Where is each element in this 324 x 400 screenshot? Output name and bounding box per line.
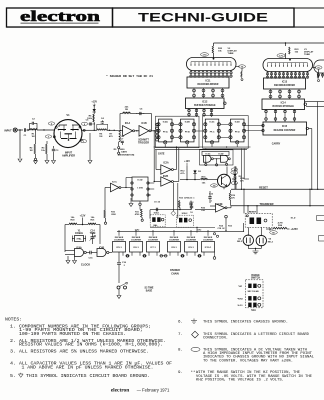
gate IC1C small	[111, 183, 120, 192]
Q2 voltage ovals	[231, 171, 238, 174]
svg-text:8.: 8.	[178, 348, 183, 352]
voltage oval at V3 anode	[277, 54, 285, 58]
svg-text:GATE: GATE	[158, 153, 165, 156]
svg-text:TRIGGER: TRIGGER	[138, 142, 149, 145]
flip-flop IC2A	[159, 119, 173, 142]
svg-text:DECADE COUNTER: DECADE COUNTER	[274, 129, 296, 132]
svg-text:IC10-1: IC10-1	[205, 247, 212, 249]
svg-text:electron: electron	[20, 9, 100, 25]
V1 internal elements	[59, 125, 80, 127]
svg-text:GATE: GATE	[121, 151, 127, 154]
divider link 2	[143, 255, 147, 257]
diode D1	[93, 107, 95, 110]
wire gates to FF row	[173, 169, 176, 171]
svg-text:C16: C16	[122, 262, 127, 264]
svg-text:S1B-1: S1B-1	[154, 213, 161, 215]
svg-text:1kHz: 1kHz	[135, 229, 140, 231]
tube internal cathodes	[191, 61, 231, 63]
resistor R2	[35, 130, 37, 144]
svg-text:**: **	[191, 370, 196, 375]
relay K1 contacts	[250, 218, 255, 225]
divider right-end wires	[214, 252, 216, 257]
svg-text:TUBE: TUBE	[304, 54, 310, 56]
wire into IC1A	[119, 129, 123, 132]
svg-text:DECODER-DRIVER: DECODER-DRIVER	[274, 85, 295, 87]
wire input to attenuator	[17, 129, 23, 131]
wire V1 plate to follower	[82, 129, 97, 131]
wire: input ground leg	[19, 130, 21, 158]
one-shot IC1D box	[132, 177, 148, 201]
tube right pin voltage oval	[313, 67, 317, 69]
resistor R22	[212, 46, 213, 53]
tube internal cathodes	[268, 62, 308, 64]
voltage oval relay	[270, 231, 278, 235]
decoder-driver IC13	[264, 78, 306, 89]
relay to lamps wiring	[247, 246, 249, 249]
svg-text:XTAL: XTAL	[76, 238, 82, 241]
op-amp IC1A	[123, 126, 133, 137]
wires IC1D to gate column	[148, 182, 154, 184]
diode D2	[194, 170, 196, 172]
gate junctions	[205, 163, 207, 165]
svg-text:1M: 1M	[29, 150, 32, 152]
wire V1 cathode leg	[89, 133, 91, 160]
svg-text:R21: R21	[90, 220, 95, 222]
svg-text:9.: 9.	[178, 371, 183, 375]
wire to Q2 base	[180, 179, 200, 181]
divider link 5	[198, 255, 202, 257]
header bar: electron logo box	[7, 8, 113, 27]
ground (S2)	[117, 296, 121, 299]
svg-text:electron: electron	[111, 388, 129, 394]
ground (IC1D)	[129, 204, 133, 207]
gate package outline	[200, 150, 234, 165]
svg-text:*KHZ: *KHZ	[237, 298, 243, 300]
svg-text:2.: 2.	[10, 340, 16, 344]
svg-text:R13: R13	[228, 226, 233, 228]
V1 pin ovals left	[48, 122, 54, 125]
divider chain top rail	[117, 230, 244, 232]
svg-text:C7: C7	[121, 139, 125, 141]
svg-text:NOTES:: NOTES:	[5, 319, 22, 323]
svg-text:10: 10	[190, 212, 193, 214]
capacitor C6 (dashed speedup)	[136, 113, 139, 115]
wire: FF area to reset rail	[241, 149, 243, 190]
ground (V1 cathode)	[88, 161, 92, 164]
wire transfer gate output	[227, 207, 231, 209]
svg-text:1 AND ABOVE ARE IN pF UNLESS M: 1 AND ABOVE ARE IN pF UNLESS MARKED OTHE…	[22, 366, 154, 370]
display tube V4 (cut off at edge)	[314, 60, 324, 73]
svg-text:IC5-1: IC5-1	[116, 247, 122, 249]
range switch wafer row 3	[248, 303, 251, 307]
svg-text:DECODER-DRIVER: DECODER-DRIVER	[198, 84, 219, 86]
svg-text:S1-D: S1-D	[291, 218, 296, 220]
right rail verticals	[309, 189, 311, 206]
svg-text:L1: L1	[122, 136, 125, 138]
svg-text:IC1D: IC1D	[138, 179, 143, 181]
connector fragment right edge 2	[319, 236, 324, 242]
divider link 4	[181, 255, 185, 257]
package outline (counter group 2)	[203, 116, 249, 149]
nand gate IC4A (clock)	[75, 249, 84, 257]
svg-text:3.: 3.	[10, 351, 16, 355]
resistor R24	[266, 228, 273, 230]
resistor R20	[69, 223, 77, 224]
capacitor C15	[90, 251, 91, 255]
svg-text:C15: C15	[88, 258, 93, 260]
flip-flop IC2C	[205, 119, 219, 142]
capacitor C16	[118, 252, 120, 262]
wire: counter output bus	[154, 146, 251, 148]
svg-text:SEC 100 4B: SEC 100 4B	[247, 290, 259, 293]
neon lamp V4	[243, 235, 253, 245]
wires IC12 buffer to counters	[188, 108, 190, 117]
wire attenuator to V1 grid	[37, 129, 55, 131]
resistor R8 feedback	[119, 114, 121, 130]
board connection circles	[156, 123, 159, 126]
svg-text:IC14: IC14	[281, 102, 287, 105]
svg-text:C4: C4	[101, 117, 105, 120]
range switch wafer row 1	[248, 284, 251, 288]
capacitor C3	[53, 146, 55, 149]
resistor R4	[97, 129, 107, 131]
tube pin circles	[190, 71, 192, 78]
nand gate IC3D	[221, 155, 229, 162]
svg-text:R9: R9	[114, 149, 118, 151]
svg-text:S1B-2: S1B-2	[182, 213, 189, 215]
nand gate IC4B (clock)	[97, 249, 106, 257]
svg-text:IC13: IC13	[282, 81, 288, 84]
wires IC14 buffer to IC15	[265, 109, 267, 122]
svg-text:*HZ: *HZ	[238, 286, 242, 288]
nand gate IC3C	[204, 155, 212, 162]
wire IC1A to IC1B	[135, 130, 139, 132]
svg-text:6.: 6.	[178, 321, 183, 325]
svg-text:IC1A: IC1A	[125, 122, 131, 125]
svg-text:10Hz: 10Hz	[197, 229, 202, 231]
wire IC15 to reset rail	[309, 128, 312, 130]
svg-text:BUFFER-STORAGE: BUFFER-STORAGE	[272, 105, 294, 108]
svg-text:CHAIN: CHAIN	[171, 273, 179, 276]
svg-text:BASE: BASE	[146, 289, 153, 292]
flip-flop IC2B	[181, 119, 195, 142]
svg-text:10k: 10k	[218, 51, 222, 53]
svg-text:THIS SYMBOL INDICATES CIRCUIT: THIS SYMBOL INDICATES CIRCUIT BOARD GROU…	[26, 375, 150, 379]
svg-text:+12V: +12V	[184, 160, 190, 163]
svg-text:C2: C2	[32, 119, 36, 121]
svg-text:4.: 4.	[10, 363, 16, 367]
svg-text:10k: 10k	[202, 183, 206, 185]
svg-text:FF-B: FF-B	[185, 132, 190, 134]
svg-text:C1: C1	[24, 135, 28, 137]
RESET rail	[231, 188, 324, 190]
svg-text:Y1: Y1	[78, 231, 82, 233]
svg-text:V5: V5	[268, 239, 271, 241]
svg-text:IC1C: IC1C	[112, 182, 117, 184]
header bar: right empty box	[294, 8, 324, 27]
wire gate line vertical	[153, 131, 155, 182]
svg-text:IC15: IC15	[282, 125, 288, 128]
wire FF4 to IC15	[244, 125, 263, 127]
divider link 3	[160, 255, 168, 257]
svg-text:470: 470	[109, 135, 113, 138]
buffer-storage IC12	[186, 98, 225, 109]
wire: +175V top rail to display tubes	[214, 42, 324, 44]
svg-text:IC11: IC11	[206, 80, 212, 83]
svg-text:IC6-1: IC6-1	[133, 247, 139, 249]
svg-text:R20: R20	[70, 220, 75, 222]
svg-text:CLOCK: CLOCK	[81, 263, 90, 267]
svg-text:NE-2: NE-2	[268, 241, 274, 243]
svg-text:22k: 22k	[125, 107, 129, 109]
svg-text:4.7M: 4.7M	[278, 221, 283, 224]
switch S2 time base	[117, 286, 120, 289]
svg-text:THIS SYMBOL INDICATES CHASSIS: THIS SYMBOL INDICATES CHASSIS GROUND.	[203, 321, 288, 325]
svg-text:TRANSFER: TRANSFER	[259, 202, 273, 206]
svg-text:IC9-1: IC9-1	[188, 247, 194, 249]
svg-text:1M: 1M	[31, 136, 34, 138]
svg-text:FF-A: FF-A	[163, 131, 168, 134]
svg-text:C9 .05: C9 .05	[154, 201, 161, 203]
Q2 collector wire	[226, 167, 228, 176]
tube V1 envelope	[54, 120, 82, 148]
svg-text:* SOLDER ON SET TAB OF #1: * SOLDER ON SET TAB OF #1	[106, 75, 154, 78]
chassis ground (lamps)	[253, 251, 259, 254]
neon lamp V5	[256, 235, 266, 245]
ground (R3)	[45, 161, 49, 164]
header bar: TECHNI-GUIDE box	[113, 8, 295, 27]
decoder to buffer wires	[270, 89, 272, 99]
svg-text:IC2A: IC2A	[163, 120, 168, 123]
svg-text:5600: 5600	[120, 149, 126, 151]
svg-text:4700: 4700	[135, 213, 140, 216]
svg-text:IC2A: IC2A	[163, 162, 169, 165]
cal bus wire	[150, 226, 215, 228]
resistor R3	[46, 141, 48, 144]
ground (R2)	[34, 158, 36, 160]
tube right pin voltage oval	[236, 66, 240, 68]
inductor L1 / R9 leg	[115, 129, 119, 131]
diode D3 column	[234, 166, 236, 189]
svg-text:D2: D2	[198, 171, 202, 173]
svg-text:.1: .1	[210, 201, 213, 203]
clock frame wires	[65, 224, 69, 226]
svg-text:IC2B: IC2B	[185, 121, 190, 123]
svg-text:100kHz: 100kHz	[75, 233, 84, 235]
svg-text:(DESIGNATION): (DESIGNATION)	[118, 154, 135, 157]
svg-text:FF-C: FF-C	[210, 132, 215, 134]
svg-text:+125V: +125V	[291, 228, 299, 231]
svg-text:CARRY: CARRY	[272, 143, 281, 146]
svg-text:R11: R11	[135, 212, 140, 214]
divider link 1	[126, 255, 130, 257]
svg-text:R15: R15	[201, 208, 206, 210]
capacitor C5	[89, 123, 93, 125]
connector fragment right edge 1	[317, 216, 324, 221]
svg-text:RESET: RESET	[249, 212, 257, 214]
svg-text:SWITCH: SWITCH	[251, 278, 260, 280]
buffer-storage IC14	[262, 99, 305, 110]
svg-text:RESET: RESET	[259, 185, 268, 189]
TRANSFER rail	[231, 205, 324, 207]
package outline (counter group 1)	[156, 116, 200, 148]
svg-text:R14: R14	[219, 225, 224, 228]
svg-text:IC2C: IC2C	[210, 121, 215, 123]
svg-text:C18 .02: C18 .02	[217, 228, 225, 230]
decoder to buffer wires	[193, 88, 195, 98]
range switch wafer row 2	[248, 296, 251, 300]
svg-text:+12V: +12V	[91, 101, 97, 104]
ground (input)	[18, 159, 22, 162]
capacitor C2 (parallel trim)	[29, 123, 31, 130]
svg-text:2200: 2200	[111, 214, 116, 216]
svg-text:FF-D: FF-D	[235, 132, 240, 134]
svg-text:NE-2: NE-2	[237, 241, 243, 243]
svg-text:C3: C3	[56, 150, 60, 152]
svg-text:S2 TIME: S2 TIME	[145, 288, 154, 290]
svg-text:7.: 7.	[178, 333, 183, 337]
svg-text:V4: V4	[238, 237, 241, 240]
op-amp IC1B	[139, 126, 149, 137]
clock gate grounds	[67, 256, 69, 260]
wire top-right vertical	[317, 102, 319, 190]
gate block label box	[202, 151, 229, 155]
svg-text:TUBE: TUBE	[228, 53, 234, 55]
svg-text:C10 .1: C10 .1	[189, 197, 196, 199]
flip-flop IC2D	[231, 119, 245, 142]
svg-text:TO THE COUNTER. VOLTAGES MAY V: TO THE COUNTER. VOLTAGES MAY VARY ±20%.	[203, 359, 293, 363]
svg-text:IC7-1: IC7-1	[150, 247, 156, 249]
display tube V2 envelope	[187, 58, 237, 71]
resistor R7 label	[107, 129, 115, 131]
display tube V3 envelope	[263, 59, 313, 72]
wire gate column to divider	[172, 183, 174, 211]
resistor R5	[93, 114, 94, 122]
svg-text:R13: R13	[179, 197, 184, 199]
svg-text:RANGE: RANGE	[251, 274, 260, 277]
tube pin circles	[267, 72, 269, 79]
wire transfer left end	[150, 209, 191, 211]
svg-text:IC4A: IC4A	[76, 247, 82, 250]
decoder-driver IC11	[187, 77, 229, 88]
svg-text:.1: .1	[123, 265, 126, 267]
transistor Q2	[218, 174, 231, 187]
resistor R21	[88, 223, 96, 224]
svg-text:10k: 10k	[295, 52, 299, 54]
svg-text:R24: R24	[278, 224, 283, 227]
svg-text:1 07B: 1 07B	[137, 188, 143, 190]
voltage oval at V2 anode	[201, 53, 209, 57]
svg-text:100-199 PARTS MOUNTED ON THE C: 100-199 PARTS MOUNTED ON THE CHASSIS.	[19, 333, 126, 337]
svg-text:KHZ POSITION, THE VOLTAGE IS .: KHZ POSITION, THE VOLTAGE IS .2 VOLTS.	[196, 379, 284, 383]
svg-text:C6: C6	[140, 109, 144, 111]
wires between flip-flops	[174, 123, 179, 125]
svg-text:1M: 1M	[99, 136, 102, 138]
svg-text:10k: 10k	[201, 210, 205, 212]
svg-text:R8: R8	[125, 109, 129, 111]
range switch S1 (dashed box)	[246, 280, 264, 308]
svg-text:IC2D: IC2D	[235, 121, 240, 123]
svg-text:4.7k: 4.7k	[180, 172, 185, 175]
svg-text:INPUT: INPUT	[4, 130, 12, 133]
svg-text:AMPLIFIER: AMPLIFIER	[62, 155, 75, 158]
svg-text:TECHNI-GUIDE: TECHNI-GUIDE	[138, 10, 268, 24]
svg-text:S1A: S1A	[251, 309, 256, 312]
wire clock to divider	[109, 252, 112, 254]
capacitor C4 (parallel)	[97, 124, 108, 130]
wire IC1B output to gate column	[151, 130, 157, 132]
svg-text:BUFFER-STORAGE: BUFFER-STORAGE	[194, 104, 216, 107]
capacitor C1	[24, 128, 25, 131]
relay K1 (dashed box)	[245, 213, 272, 227]
resistor R23	[289, 47, 290, 54]
svg-text:IC8-1: IC8-1	[171, 247, 177, 249]
svg-text:+12V: +12V	[80, 215, 86, 218]
svg-text:— February 1971: — February 1971	[137, 387, 170, 392]
svg-text:RESISTOR VALUES ARE IN OHMS (k: RESISTOR VALUES ARE IN OHMS (k=1000, M=1…	[19, 343, 163, 348]
decade counter IC15	[263, 122, 307, 135]
svg-text:CONNECTION.: CONNECTION.	[203, 337, 228, 341]
svg-text:C14: C14	[90, 230, 95, 233]
svg-text:IC4B: IC4B	[99, 247, 105, 250]
V1 pin ovals right	[81, 122, 87, 125]
svg-text:1.: 1.	[10, 326, 16, 330]
svg-text:ALL RESISTORS ARE 5% UNLESS MA: ALL RESISTORS ARE 5% UNLESS MARKED OTHER…	[19, 351, 149, 355]
svg-text:IC12: IC12	[202, 101, 208, 104]
svg-text:V1: V1	[66, 113, 70, 117]
resistor R1	[28, 129, 31, 131]
svg-text:IC1B: IC1B	[141, 123, 147, 125]
svg-text:S-G1: S-G1	[237, 305, 243, 307]
svg-text:5.: 5.	[10, 375, 16, 379]
diamond connection A	[171, 211, 176, 216]
svg-text:R10: R10	[111, 212, 116, 214]
svg-text:10k: 10k	[41, 150, 45, 152]
